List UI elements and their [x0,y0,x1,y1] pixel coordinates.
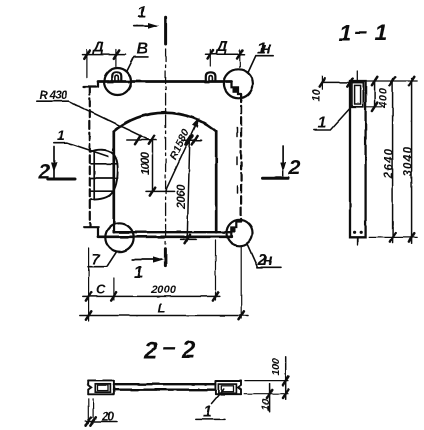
callout label 7 with leader [88,251,117,268]
radius leader R1580 [165,118,199,191]
svg-text:1: 1 [203,404,212,421]
bottom-left corner step [84,223,98,237]
right edge (hidden, dashed) [240,95,242,222]
label R430 with leader [37,90,150,140]
svg-text:2: 2 [181,336,196,363]
extension lines for bottom dimensions [89,241,242,322]
dimension 400 [372,77,390,111]
svg-text:–: – [355,18,368,44]
arched opening: left leg [112,131,115,232]
section marker 2 (left) [38,147,76,184]
dimension 1000 (vertical) [140,140,155,196]
centerline (axis of panel / cut 1-1) [165,49,167,247]
svg-text:400: 400 [378,87,390,109]
svg-text:L: L [158,301,166,316]
callout circle 2n [227,220,253,246]
dimension 2060 (vertical) [176,136,196,243]
svg-text:2: 2 [143,337,158,364]
panel bottom edge [98,235,231,238]
svg-text:С: С [96,282,106,297]
callout circle 7 [105,223,133,251]
svg-text:1: 1 [375,19,388,45]
rebar dots [353,231,356,234]
section marker 2 (right) [263,146,301,180]
dimension 20 (section 2-2 left) [85,399,116,426]
bottom-right corner step [231,222,241,237]
arched opening: right leg [215,131,218,232]
inner rebate dashes near right edge [236,128,238,193]
svg-text:7: 7 [92,251,101,268]
right end block of section 2-2 [215,381,241,394]
svg-text:Д: Д [91,39,104,56]
embedded ladder plate on left edge [91,150,118,200]
axis stubs of section 1-1 [356,71,358,246]
panel top edge [98,80,232,83]
top-right corner step [232,82,242,95]
dimension line L [80,301,248,320]
svg-text:20: 20 [101,410,114,424]
lifting loop (left, at B) [112,72,122,81]
loop slot in section [352,83,363,107]
inner dimension: upper tie line right [182,139,202,141]
svg-text:R 430: R 430 [40,90,69,102]
dimension D (left, edge to loop) [83,39,127,79]
arched opening: arc R1580 [114,113,216,131]
extension lines (section 2-2 right) [244,381,288,394]
dimension 3040 [403,77,415,244]
dimension 100 [270,357,288,400]
dimension D (right, loop to edge) [206,38,245,68]
inner dimension: upper tie line left [127,139,157,141]
dimension 10 (top of section 1-1) [311,76,353,102]
section 1-1 panel body [350,81,366,237]
svg-text:В: В [137,41,149,58]
svg-text:100: 100 [270,358,282,375]
callout circle 1n [224,69,253,98]
svg-text:1: 1 [138,5,147,22]
svg-text:10: 10 [260,399,272,411]
label 1 with leader (section 2-2) [196,389,225,421]
arc centre tie line [146,190,175,192]
left end block of section 2-2 [88,380,114,394]
top-left corner step [84,82,99,88]
section 2-2 panel web [114,384,215,390]
svg-text:2640: 2640 [384,148,396,179]
svg-text:10: 10 [311,88,323,101]
svg-text:1н: 1н [257,40,271,57]
callout label 1n with leader [248,40,273,72]
svg-text:1: 1 [57,127,65,143]
left edge (hidden, dashed) [89,88,91,223]
svg-text:2: 2 [288,157,301,180]
svg-text:2н: 2н [257,252,273,269]
callout circle B [104,68,131,95]
svg-text:1000: 1000 [140,151,152,175]
dimension 10 (section 2-2) [260,384,273,412]
svg-text:2000: 2000 [150,284,177,296]
dimension 2640 [384,77,396,243]
dimension line C / 2000 [83,282,220,301]
label 1 with leader to ladder plate [54,127,108,156]
svg-text:1: 1 [339,20,352,46]
svg-text:3040: 3040 [403,147,415,177]
lifting loop (right) [206,72,216,81]
section marker 1 (top) [134,5,166,45]
svg-text:Д: Д [215,38,228,55]
callout label B with leader [127,41,148,72]
svg-text:2060: 2060 [176,184,188,210]
section marker 1 (bottom) [132,249,166,282]
svg-text:–: – [163,334,176,361]
label 1 with leader (section 1-1 loop) [314,106,353,132]
extension lines (section 1-1) [366,81,418,237]
opening sill line [114,231,231,233]
svg-text:1: 1 [318,115,327,132]
svg-text:1: 1 [134,263,143,282]
callout label 2n with leader [247,243,281,268]
